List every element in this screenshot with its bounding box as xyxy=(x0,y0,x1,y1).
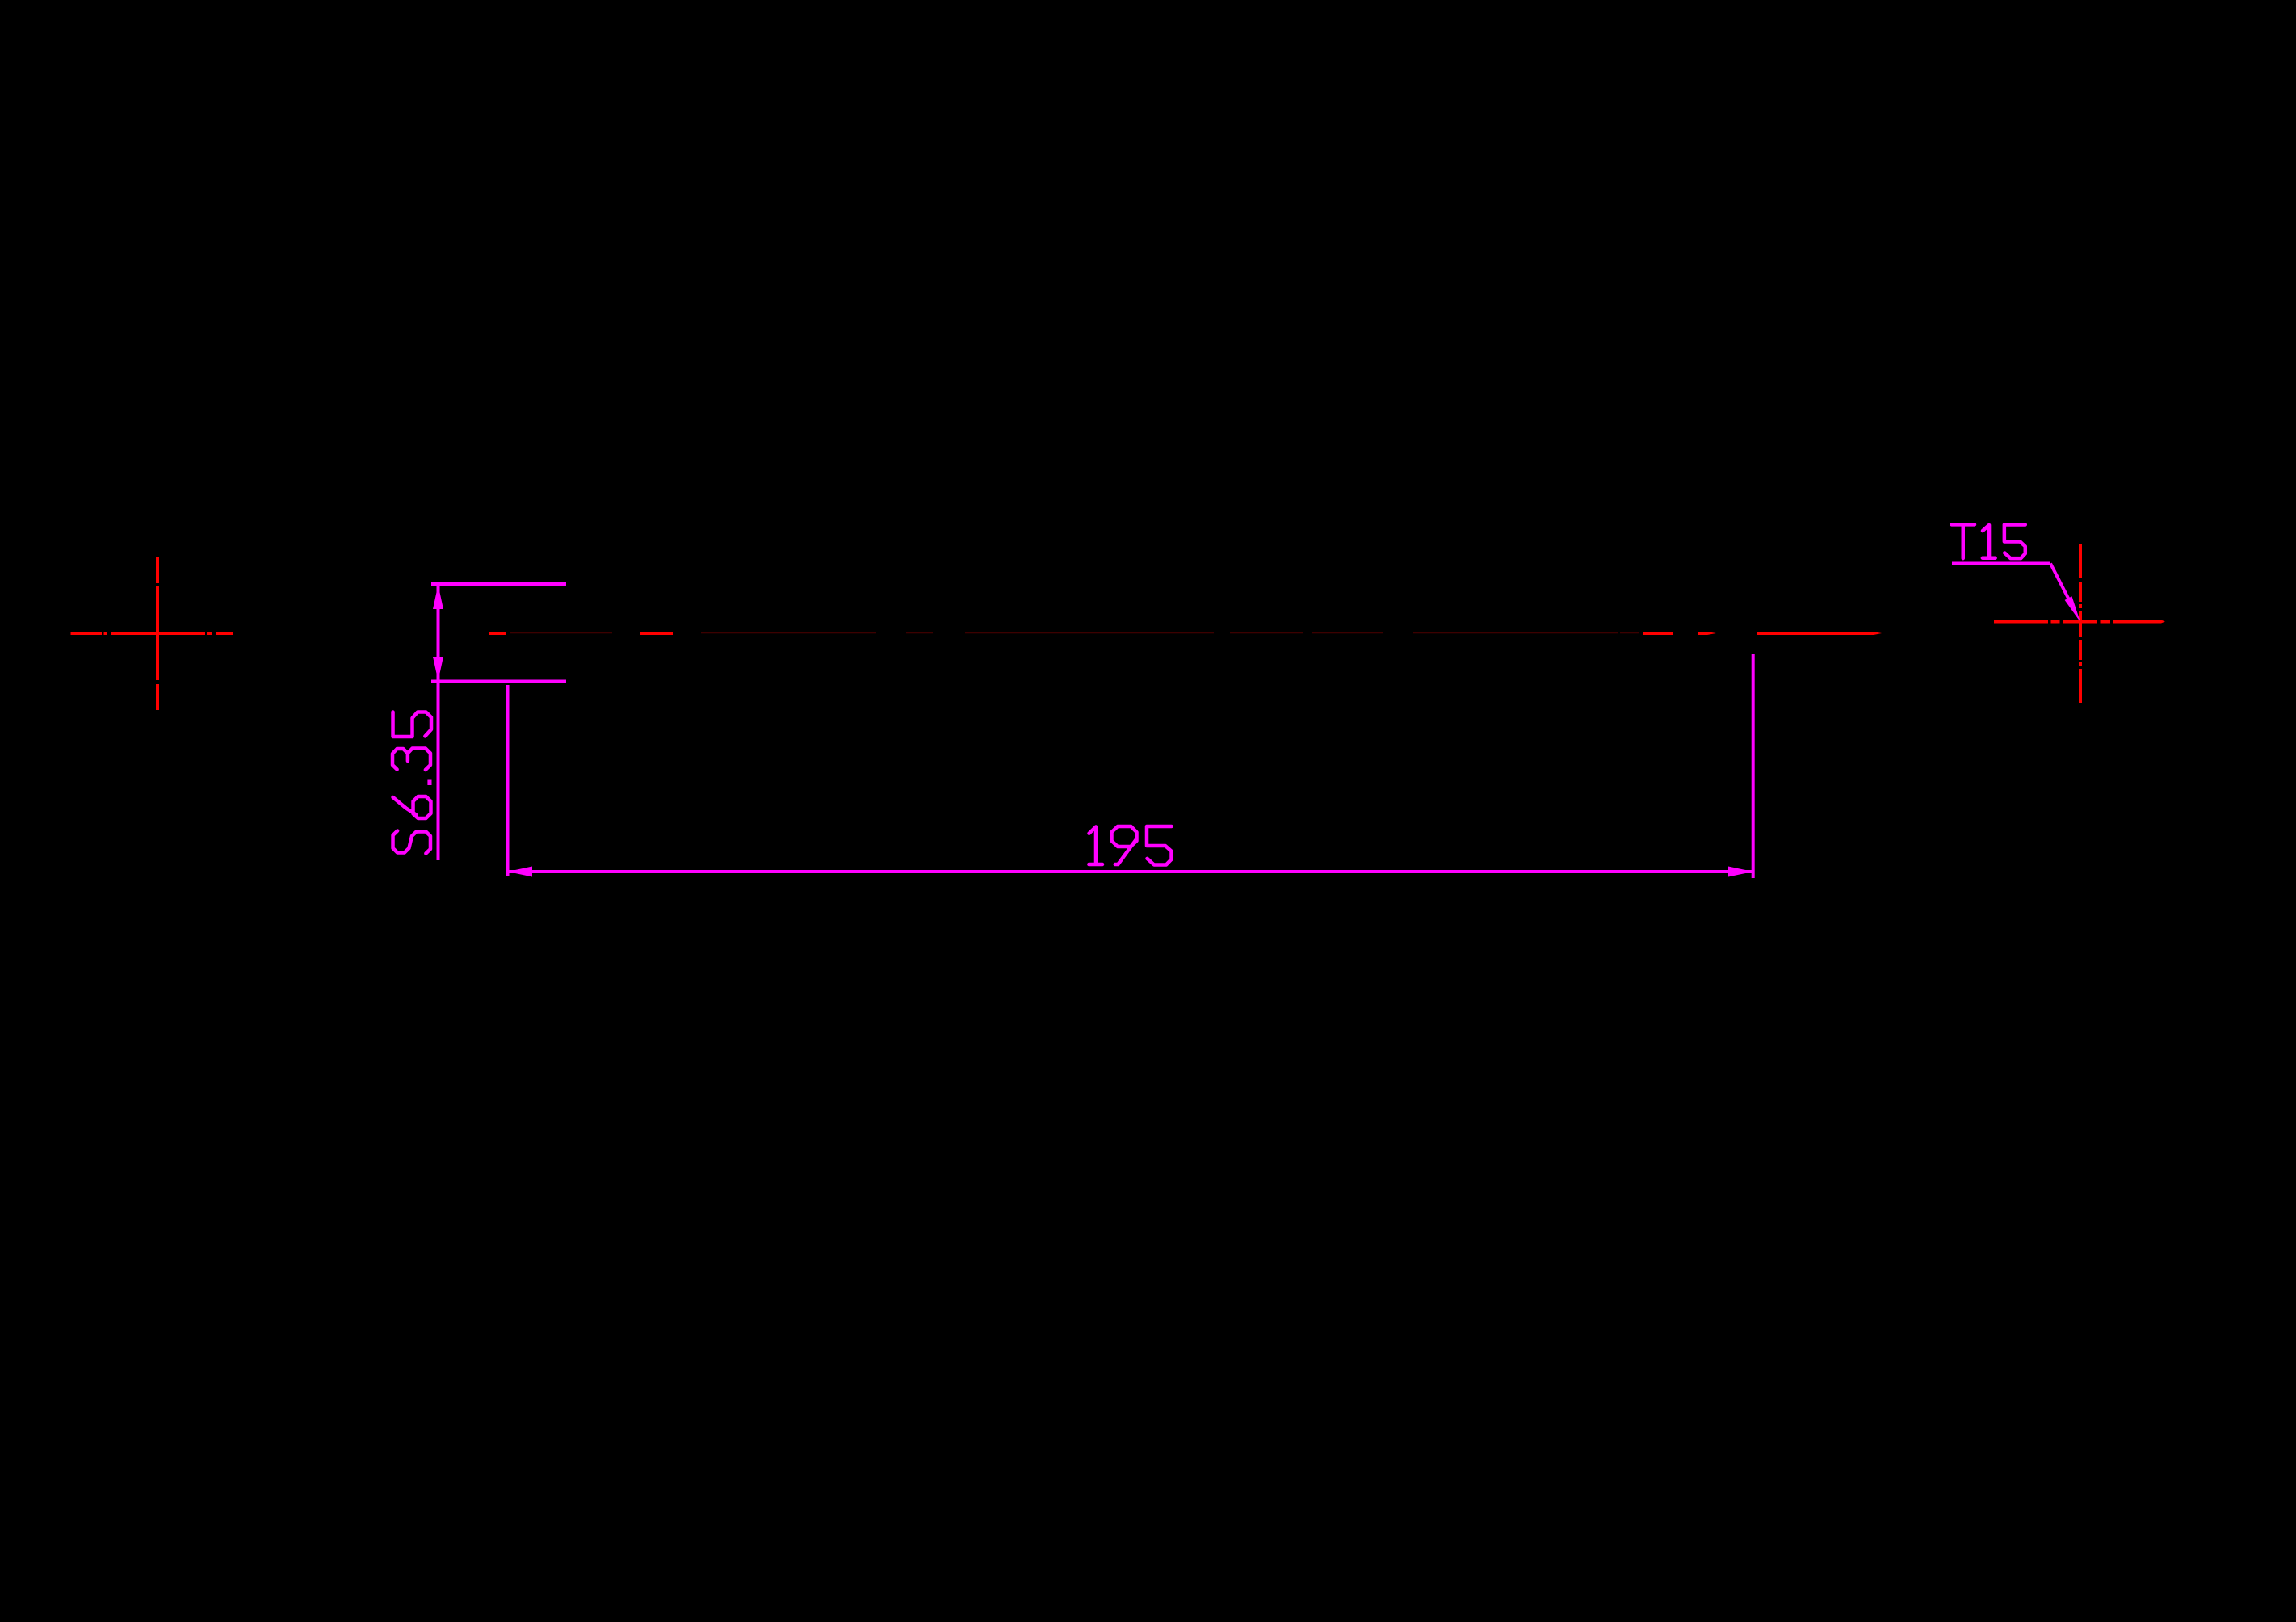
dimension S6.35: top extension line xyxy=(431,582,566,586)
dimension S6.35: bottom extension line xyxy=(431,680,566,683)
horizontal centerline: dim thin segments xyxy=(510,632,1639,633)
leader T15: text "T15" xyxy=(1952,524,2025,558)
dimension S6.35: arrowhead up xyxy=(433,585,443,609)
dimension 195: arrowhead left xyxy=(508,867,533,877)
leader T15: arrowhead xyxy=(2065,596,2080,622)
dimension 195: text "195" xyxy=(1089,826,1171,864)
leader T15: underline xyxy=(1952,562,2050,565)
center mark right: horizontal centerline (red dash-dot) xyxy=(1994,620,2165,624)
dimension 195: right extension line xyxy=(1752,654,1755,878)
center mark right: vertical centerline (red dash-dot) xyxy=(2079,544,2082,703)
horizontal centerline: bright dashes between crosses xyxy=(489,632,1882,635)
center mark left: horizontal centerline (red dash-dot) xyxy=(71,632,234,635)
center mark left: vertical centerline (red dash-dot) xyxy=(156,557,159,710)
dimension S6.35: dimension line xyxy=(437,584,440,860)
dimension S6.35: text "S6.35" (rotated) xyxy=(392,712,431,854)
dimension 195: dimension line xyxy=(508,870,1753,873)
leader T15: leader line xyxy=(2050,564,2069,599)
dimension S6.35: arrowhead down xyxy=(433,657,443,681)
dimension 195: left extension line xyxy=(506,685,510,876)
dimension 195: arrowhead right xyxy=(1728,867,1753,877)
